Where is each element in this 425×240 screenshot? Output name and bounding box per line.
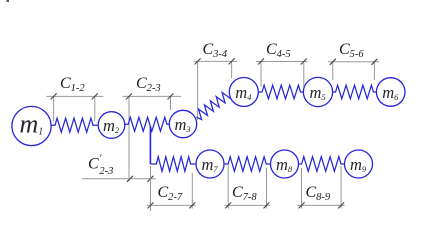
mass m6 bbox=[376, 78, 405, 107]
spring c2-3 bbox=[125, 117, 170, 131]
wire vertical drop from spring c2-3 to spring c2-7 bbox=[149, 126, 151, 164]
spring c4-5 bbox=[258, 85, 303, 99]
mass m5 bbox=[303, 77, 332, 106]
spring c1-2 bbox=[52, 118, 99, 132]
mass m8 bbox=[271, 150, 299, 178]
spring c7-8 bbox=[224, 157, 272, 172]
dimension c1-2 bbox=[46, 96, 103, 121]
mass m4 bbox=[229, 78, 258, 107]
spring c2-7 bbox=[150, 157, 196, 172]
spring c3-4 diagonal bbox=[196, 92, 231, 119]
dimension c7-8 bbox=[225, 165, 271, 209]
spring c8-9 bbox=[298, 157, 345, 172]
dimension c2-3 bbox=[122, 96, 181, 181]
mass m2 bbox=[98, 112, 125, 139]
dimension c2-7 bbox=[147, 166, 196, 211]
mass m7 bbox=[196, 150, 224, 178]
dimension c5-6 bbox=[328, 62, 379, 80]
dimension c3-4 bbox=[194, 61, 237, 120]
stray mark top-left bbox=[7, 0, 10, 2]
mass m9 bbox=[345, 150, 373, 178]
spring c5-6 bbox=[333, 85, 377, 99]
dimension c8-9 bbox=[298, 166, 345, 209]
mass m1 bbox=[12, 106, 51, 145]
dimension c'2-3 bbox=[82, 178, 156, 180]
mass m3 bbox=[169, 110, 196, 137]
dimension c4-5 bbox=[256, 62, 308, 94]
